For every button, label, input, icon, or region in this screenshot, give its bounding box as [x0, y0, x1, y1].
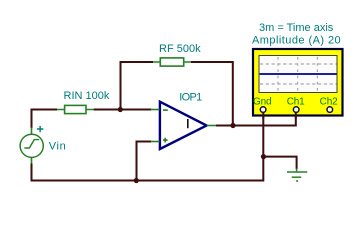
svg-text:3m = Time axis: 3m = Time axis [259, 22, 334, 34]
wire Gnd terminal stub [262, 112, 264, 118]
op-amp pin minus lead [151, 109, 160, 111]
oscilloscope grid v lines [278, 57, 317, 92]
resistor RIN (leads) [57, 109, 94, 111]
junction node output/feedback [230, 123, 235, 128]
op-amp ideal bar [187, 119, 189, 128]
label Ch2 [320, 97, 339, 108]
label Gnd [253, 97, 271, 108]
wire input top: Vin top to RIN [31, 110, 58, 129]
wire feedback left riser [120, 62, 154, 110]
op-amp U1 IOP1 triangle [160, 102, 207, 149]
svg-text:Vin: Vin [49, 140, 67, 152]
label Amplitude (A) 20 [252, 35, 341, 47]
wire plus input branch [136, 142, 152, 182]
wire Ch1 terminal stub [295, 112, 297, 118]
voltage source waveform symbol [24, 140, 39, 148]
op-amp minus sign [163, 109, 168, 111]
label Vin [49, 140, 67, 152]
svg-text:Gnd: Gnd [253, 97, 271, 108]
op-amp plus sign [163, 138, 168, 143]
resistor RIN body [65, 105, 86, 113]
junction node plus-branch on rail [134, 178, 139, 183]
voltage source bottom lead [31, 157, 33, 164]
terminal Gnd [260, 107, 266, 113]
svg-text:Amplitude (A) 20: Amplitude (A) 20 [252, 35, 341, 47]
label RF 500k [159, 43, 201, 55]
junction node at RIN/feedback [118, 107, 123, 112]
terminal Ch2 [327, 107, 333, 113]
op-amp pin plus lead [151, 141, 160, 143]
wire bottom rail [31, 112, 265, 182]
oscilloscope screen [259, 56, 337, 93]
plus polarity mark [37, 126, 43, 132]
svg-text:RIN 100k: RIN 100k [64, 90, 110, 102]
label RIN 100k [64, 90, 110, 102]
terminal Ch1 [293, 107, 299, 113]
resistor RF body [160, 58, 183, 66]
svg-text:RF 500k: RF 500k [159, 43, 201, 55]
voltage source V1 circle [20, 134, 43, 157]
svg-text:Ch2: Ch2 [320, 97, 339, 108]
label IOP1 [179, 91, 202, 103]
resistor RF (leads) [153, 61, 191, 63]
wire ground branch [264, 157, 298, 169]
junction node ground branch [261, 154, 266, 159]
ground symbol [287, 169, 307, 182]
svg-text:IOP1: IOP1 [179, 91, 202, 103]
svg-text:Ch1: Ch1 [287, 97, 305, 108]
oscilloscope grid h lines [260, 64, 337, 84]
wire RIN to op-amp minus [94, 109, 151, 111]
wire feedback right riser to output [191, 62, 234, 126]
op-amp pin output lead [207, 125, 216, 127]
voltage source top lead [31, 128, 33, 135]
label Ch1 [287, 97, 305, 108]
label 3m = Time axis [259, 22, 334, 34]
oscilloscope OSC1 body [253, 49, 343, 116]
wire output to scope Ch1 [216, 112, 297, 126]
oscilloscope trace line [260, 73, 337, 75]
